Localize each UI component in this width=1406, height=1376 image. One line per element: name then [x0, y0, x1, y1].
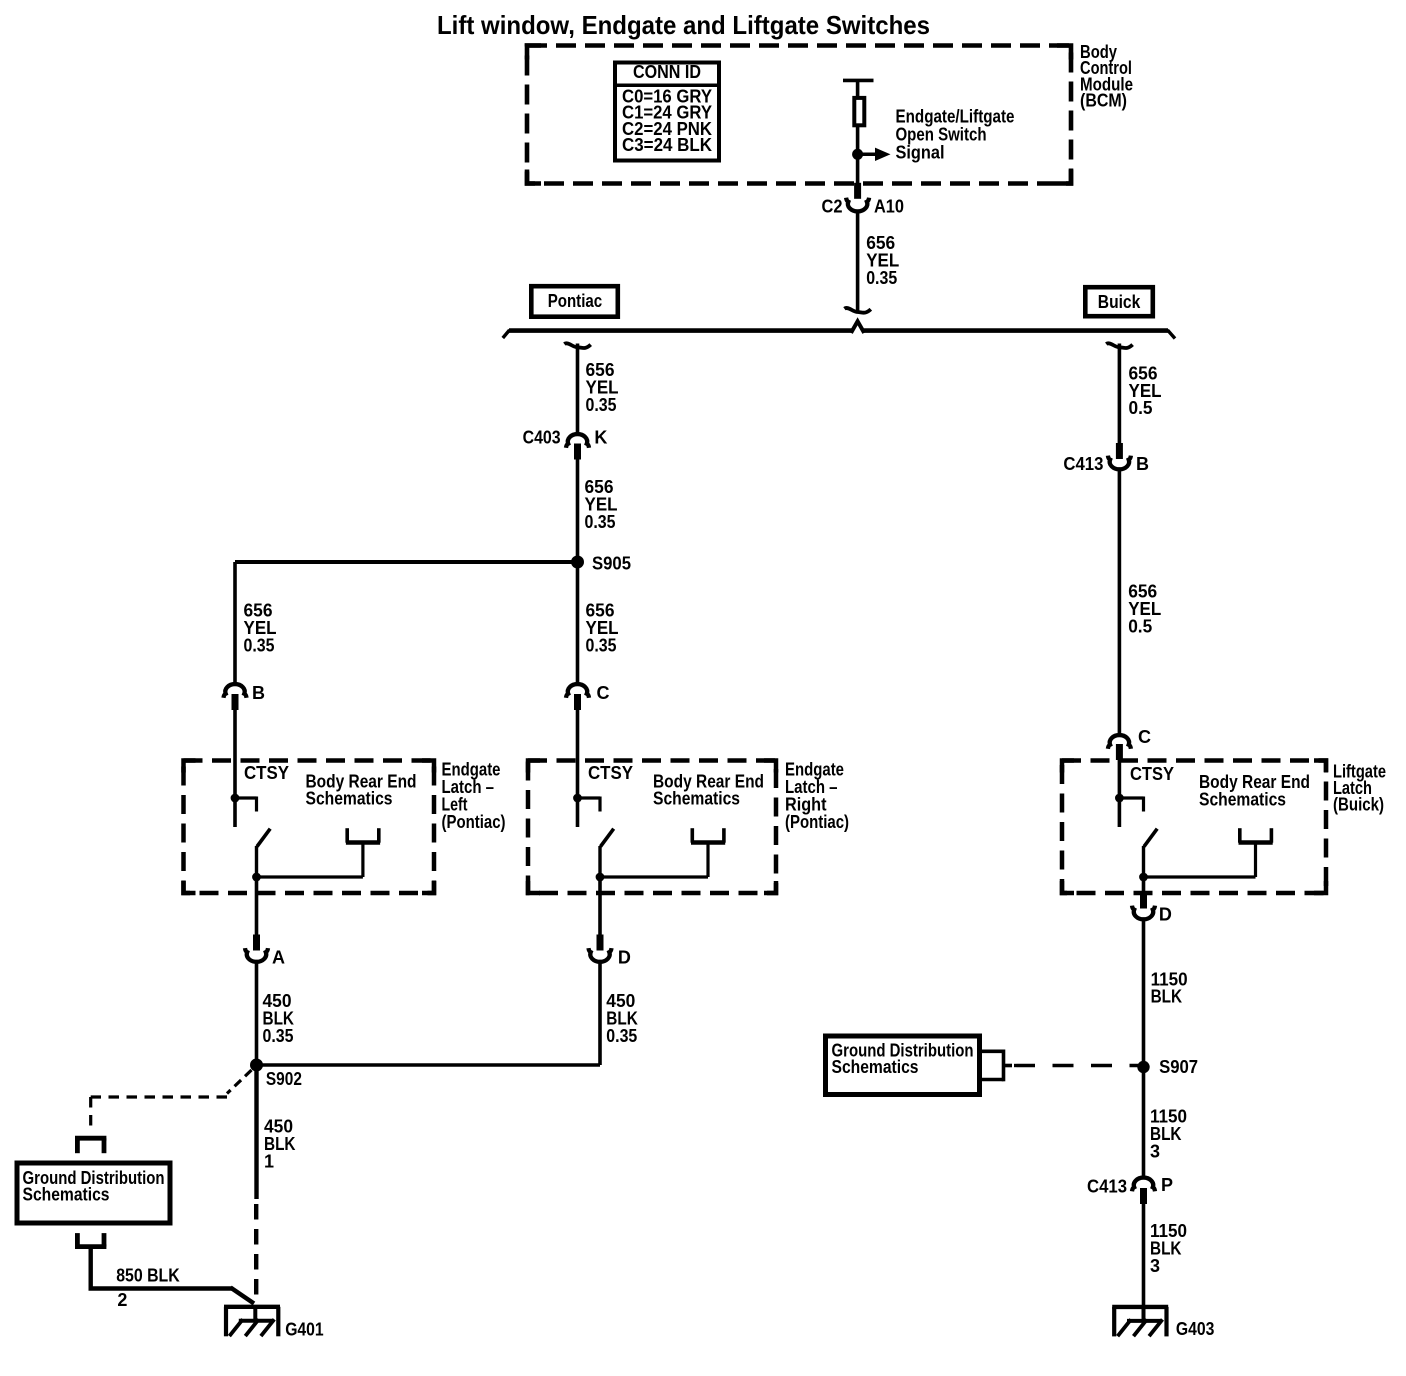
svg-text:D: D	[1159, 905, 1172, 925]
bus left tail	[503, 330, 510, 338]
wire: blade pivot to lower node	[598, 846, 601, 877]
wire 656 YEL 0.5 to liftgate latch	[1118, 470, 1122, 734]
wire 1150 BLK 3 (C413 to G403)	[1142, 1204, 1146, 1307]
svg-text:0.35: 0.35	[244, 635, 275, 655]
page bracket below box	[75, 1233, 106, 1247]
svg-text:Schematics: Schematics	[832, 1057, 919, 1077]
lower node	[1139, 873, 1148, 882]
svg-text:0.5: 0.5	[1129, 398, 1153, 418]
ground distribution schematics box (left)	[17, 1163, 170, 1223]
wire 656 YEL 0.35 (BCM feed)	[856, 212, 860, 312]
latch fixed contact bracket	[691, 828, 725, 843]
svg-text:C3=24 BLK: C3=24 BLK	[622, 135, 712, 155]
connector A	[253, 935, 260, 951]
svg-text:3: 3	[1150, 1256, 1160, 1276]
BCM dashed box	[527, 46, 1071, 184]
wire 450 BLK 1 (S902 down)	[254, 1065, 258, 1199]
svg-text:0.35: 0.35	[263, 1026, 294, 1046]
svg-text:Buick: Buick	[1098, 292, 1141, 312]
svg-text:3: 3	[1150, 1142, 1160, 1162]
squiggle at Pontiac tap	[564, 343, 590, 348]
wire: blade pivot to lower node	[1142, 846, 1145, 877]
connector C413 pin B	[1116, 443, 1123, 459]
svg-text:CTSY: CTSY	[588, 763, 633, 783]
wire into middle latch box	[576, 710, 580, 827]
ground G403	[1112, 1307, 1168, 1337]
switch blade (open)	[257, 829, 270, 847]
CTSY stub wire	[1119, 796, 1143, 799]
CTSY tap node	[231, 794, 240, 803]
svg-text:A10: A10	[874, 196, 904, 216]
wire: S905 branch to left	[235, 560, 578, 564]
svg-text:CONN ID: CONN ID	[633, 62, 701, 82]
wire: corner D-leg to S902	[255, 1063, 601, 1066]
resistor (switch signal pull-up)	[854, 98, 864, 125]
connector C2 pin A10	[854, 183, 861, 199]
wire 1150 BLK (D to S907)	[1142, 920, 1146, 1067]
svg-text:C413: C413	[1087, 1177, 1127, 1197]
CTSY tap node	[1115, 794, 1124, 803]
latch box (dashed)	[528, 761, 776, 894]
wire 656 YEL 0.5 to C413	[1118, 344, 1122, 445]
svg-text:S905: S905	[592, 554, 631, 574]
svg-text:0.5: 0.5	[1128, 616, 1152, 636]
wire: node to fixed contact	[1144, 875, 1256, 878]
splice S902	[250, 1059, 263, 1072]
ground distribution schematics box (right)	[826, 1036, 980, 1095]
wire: BCM internal vertical	[856, 80, 860, 97]
svg-text:850 BLK: 850 BLK	[116, 1266, 180, 1286]
connector D	[597, 935, 604, 951]
wire 656 YEL 0.35 to C403	[576, 344, 580, 434]
svg-text:Open Switch: Open Switch	[896, 125, 987, 145]
svg-text:B: B	[1136, 454, 1149, 474]
svg-text:(Pontiac): (Pontiac)	[442, 812, 506, 832]
CTSY stub wire	[578, 796, 601, 799]
connector C (endgate latch right)	[566, 684, 589, 698]
svg-text:(BCM): (BCM)	[1080, 91, 1127, 111]
wire: blade pivot to lower node	[255, 846, 258, 877]
wire: latch left out	[255, 877, 259, 935]
wire: liftgate latch out	[1142, 877, 1146, 894]
wire (dashed continuation to G401)	[254, 1204, 258, 1302]
wire-break squiggle at feed	[844, 308, 870, 313]
svg-text:G401: G401	[285, 1320, 324, 1340]
svg-text:Lift window, Endgate and Liftg: Lift window, Endgate and Liftgate Switch…	[437, 10, 930, 40]
BCM label	[1080, 42, 1133, 111]
wire into left latch box	[233, 710, 237, 827]
svg-text:C2: C2	[822, 196, 843, 216]
svg-text:S907: S907	[1159, 1057, 1198, 1077]
switch blade (open)	[1144, 829, 1157, 847]
svg-text:Signal: Signal	[896, 143, 945, 163]
latch box (dashed)	[1062, 761, 1326, 894]
svg-text:Pontiac: Pontiac	[548, 291, 603, 311]
label: signal name	[896, 107, 1015, 163]
connector C403 pin K	[566, 434, 589, 448]
wire: node to fixed contact	[600, 875, 708, 878]
svg-text:CTSY: CTSY	[244, 763, 289, 783]
squiggle at Buick tap	[1106, 343, 1132, 348]
wire 656 YEL 0.35 to S905	[576, 460, 580, 563]
svg-text:(Pontiac): (Pontiac)	[785, 812, 849, 832]
lower node	[596, 873, 605, 882]
Pontiac box	[531, 286, 618, 317]
svg-text:Schematics: Schematics	[23, 1185, 110, 1205]
svg-text:C: C	[597, 683, 610, 703]
CTSY tap node	[573, 794, 582, 803]
svg-text:Schematics: Schematics	[306, 789, 393, 809]
svg-text:0.35: 0.35	[585, 512, 616, 532]
wire 656 YEL 0.35 (left leg to B)	[233, 562, 237, 683]
wire: node to fixed contact	[257, 875, 363, 878]
svg-text:Schematics: Schematics	[1199, 790, 1286, 810]
svg-text:K: K	[594, 428, 607, 448]
bus wire (option split)	[509, 328, 852, 333]
splice S907	[1137, 1061, 1149, 1073]
wire 850 BLK 2 to G401	[88, 1247, 92, 1287]
terminal T-bar	[843, 79, 874, 83]
svg-text:0.35: 0.35	[586, 395, 617, 415]
svg-text:S902: S902	[266, 1069, 302, 1089]
svg-text:C403: C403	[523, 428, 561, 448]
connector B (endgate latch left)	[224, 684, 247, 698]
connector C413 pin P	[1132, 1178, 1155, 1192]
svg-text:1: 1	[264, 1151, 274, 1171]
switch blade (open)	[601, 829, 614, 847]
dashed link to S907	[1014, 1064, 1140, 1067]
CTSY stub wire	[235, 796, 257, 799]
dashed link S902 to ground distribution	[227, 1070, 252, 1094]
svg-text:(Buick): (Buick)	[1333, 795, 1384, 815]
bus chevron at feed point	[851, 321, 864, 333]
latch box (dashed)	[184, 761, 435, 894]
svg-text:Endgate/Liftgate: Endgate/Liftgate	[896, 107, 1015, 127]
wire 656 YEL 0.35 (middle leg to C)	[576, 562, 580, 683]
svg-text:B: B	[252, 683, 265, 703]
wire 450 BLK 0.35 (A to S902)	[255, 963, 259, 1066]
wire 1150 BLK 3 (S907 to C413)	[1142, 1067, 1146, 1177]
bus right tail	[1168, 330, 1176, 339]
bracket at right GD box	[982, 1050, 1004, 1054]
lower node	[252, 873, 261, 882]
svg-text:2: 2	[117, 1290, 127, 1310]
svg-text:BLK: BLK	[1151, 987, 1183, 1007]
svg-text:CTSY: CTSY	[1130, 764, 1174, 784]
node: signal tap junction	[852, 149, 863, 160]
wire: latch middle out	[598, 877, 602, 935]
svg-text:0.35: 0.35	[586, 635, 617, 655]
wire 450 BLK 0.35 (D to S902)	[598, 963, 602, 1066]
svg-text:Schematics: Schematics	[653, 789, 740, 809]
svg-text:A: A	[272, 948, 285, 968]
svg-text:0.35: 0.35	[866, 268, 897, 288]
svg-text:G403: G403	[1176, 1319, 1215, 1339]
arrow: Endgate/Liftgate Open Switch Signal	[858, 153, 876, 157]
connector C (liftgate latch)	[1108, 735, 1131, 749]
wire: resistor to connector C2	[856, 125, 860, 184]
latch fixed contact bracket	[346, 828, 380, 843]
svg-text:P: P	[1161, 1175, 1173, 1195]
Buick box	[1085, 287, 1153, 316]
svg-text:D: D	[618, 948, 631, 968]
CONN ID table	[613, 62, 721, 160]
splice S905	[571, 556, 584, 569]
svg-text:C: C	[1138, 727, 1151, 747]
connector D (liftgate)	[1140, 893, 1147, 909]
latch fixed contact bracket	[1239, 828, 1273, 843]
wire into liftgate latch box	[1118, 760, 1122, 827]
svg-text:0.35: 0.35	[606, 1026, 637, 1046]
svg-text:C413: C413	[1063, 454, 1103, 474]
page bracket above box	[75, 1138, 106, 1153]
ground G401	[224, 1307, 280, 1337]
